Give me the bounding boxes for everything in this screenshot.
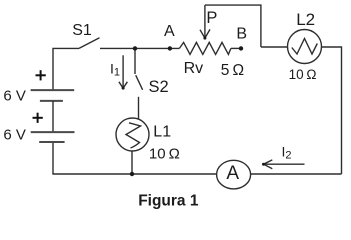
wire left rail to battery bottom [52,142,54,174]
node B dot [239,46,243,50]
plus sign cell 1 [36,70,46,80]
svg-text:S1: S1 [72,22,92,39]
wire L1 to bottom rail [131,151,133,174]
svg-text:10 Ω: 10 Ω [289,67,317,82]
current I1 arrow tip dot [122,87,125,90]
wiper P arrow stem [204,5,206,37]
battery cell 1 negative plate [40,100,63,102]
lamp L1 circle [116,118,149,151]
lamp L2 filament zigzag [292,39,318,55]
wiper P arrow tip dot [203,37,206,40]
current I2 arrow [264,160,305,169]
node dot at L1 bottom rail junction [130,172,134,176]
ammeter circle [217,160,251,189]
battery cell 2 negative plate [39,141,64,143]
lamp L1 filament zigzag [126,123,141,148]
switch S1 blade [79,38,100,49]
svg-text:P: P [206,9,217,27]
wire loop to lamp L2 [261,46,288,48]
wire Rv to node B [231,47,241,49]
svg-text:I2: I2 [282,144,292,162]
wire L2 to right rail [322,47,342,174]
svg-text:Rv: Rv [184,60,204,77]
wire bottom rail right of ammeter [251,173,342,175]
svg-text:A: A [164,23,175,40]
svg-text:L1: L1 [153,124,171,141]
wiper P arrowhead [200,29,210,38]
current I2 arrow tip dot [262,163,265,166]
wire S1 to node A [100,47,179,49]
node A dot [168,46,172,50]
svg-text:I1: I1 [110,60,120,78]
wire between battery cells [52,101,54,132]
wire top-left horizontal to S1 [53,48,79,90]
svg-text:6 V: 6 V [3,126,26,143]
wire bottom rail left of ammeter [52,173,216,175]
battery cell 2 positive plate [31,131,75,133]
svg-text:S2: S2 [149,78,169,96]
resistor Rv zigzag [179,42,231,54]
lamp L2 circle [288,30,322,64]
svg-text:10 Ω: 10 Ω [149,145,180,162]
plus sign cell 2 [33,113,43,123]
svg-text:B: B [236,25,247,42]
node junction dot at S2 branch [133,46,137,50]
svg-text:L2: L2 [296,10,315,29]
svg-text:A: A [226,163,239,184]
wire junction to switch S2 [134,48,136,74]
svg-text:Figura 1: Figura 1 [138,192,199,209]
svg-text:5 Ω: 5 Ω [221,62,244,79]
current I1 arrow [119,55,128,88]
wire S2 contact to lamp L1 [138,97,140,119]
switch S2 blade [136,75,143,90]
battery cell 1 positive plate [31,89,75,91]
svg-text:6 V: 6 V [3,87,26,104]
wire wiper loop up and over [205,5,261,47]
